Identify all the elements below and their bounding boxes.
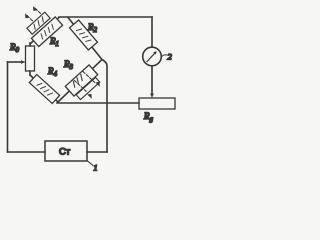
resistor R1 bbox=[31, 17, 62, 47]
shield arrow b bbox=[75, 81, 92, 99]
wire arm R2 bbox=[68, 18, 102, 60]
wire left to R0 wiper arrow bbox=[8, 60, 26, 64]
svg-text:Ст: Ст bbox=[59, 147, 71, 158]
compensation strip (companion of R3) bbox=[76, 77, 100, 99]
wire arm R1 bbox=[30, 18, 59, 45]
wire arm R4 bbox=[30, 75, 58, 102]
svg-text:1: 1 bbox=[94, 164, 98, 173]
leader to label 1 bbox=[87, 161, 93, 166]
wire right node down to bottom bbox=[102, 60, 107, 153]
bolometer strip (companion of R1) bbox=[27, 12, 50, 34]
resistor R4 bbox=[29, 74, 59, 103]
wire bottom right bbox=[87, 151, 107, 153]
svg-text:R4: R4 bbox=[47, 66, 58, 78]
resistor R3 bbox=[65, 65, 97, 96]
resistor Rg (rheostat) bbox=[139, 98, 175, 109]
wire right vertical to galvanometer bbox=[151, 17, 153, 47]
wire bottom left bbox=[8, 151, 46, 153]
wire middle horizontal (bottom node to Rg) bbox=[57, 102, 139, 104]
wire R0 top stub bbox=[29, 43, 31, 46]
svg-text:Rg: Rg bbox=[143, 111, 154, 123]
wire left vertical bbox=[7, 62, 9, 152]
stabilizer box Ct (1) bbox=[45, 141, 87, 161]
shield arrow a bbox=[83, 72, 100, 87]
wire R0 bottom stub bbox=[29, 71, 31, 75]
resistor R2 bbox=[70, 20, 98, 50]
svg-text:R3: R3 bbox=[63, 59, 74, 71]
svg-text:R1: R1 bbox=[49, 36, 59, 48]
wire galvanometer to Rg wiper arrow bbox=[150, 66, 154, 98]
svg-text:2: 2 bbox=[168, 52, 173, 62]
leader to label 2 bbox=[162, 55, 168, 57]
radiation arrow b bbox=[25, 13, 33, 21]
resistor R0 (balance) bbox=[26, 46, 35, 71]
galvanometer 2 bbox=[143, 47, 162, 66]
wire top horizontal bbox=[59, 16, 152, 18]
svg-text:R0: R0 bbox=[9, 42, 20, 54]
radiation arrow a bbox=[33, 6, 41, 14]
wire arm R3 bbox=[58, 60, 102, 103]
